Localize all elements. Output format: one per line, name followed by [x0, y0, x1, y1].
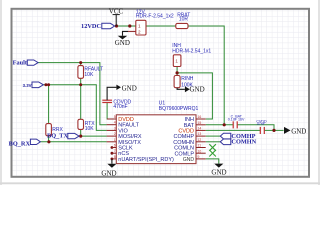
- svg-text:16: 16: [198, 115, 202, 119]
- svg-text:2: 2: [138, 30, 141, 35]
- svg-text:7: 7: [114, 149, 116, 153]
- svg-text:1: 1: [114, 138, 116, 142]
- svg-text:GND: GND: [122, 84, 137, 92]
- svg-text:HDR-M-2.54_1x1: HDR-M-2.54_1x1: [172, 49, 211, 55]
- svg-text:Fault: Fault: [13, 60, 28, 67]
- svg-text:COMHN: COMHN: [231, 139, 256, 146]
- svg-text:nUART/SPI(SPI_RDY): nUART/SPI(SPI_RDY): [118, 157, 174, 163]
- svg-text:BQ79600PWRQ1: BQ79600PWRQ1: [159, 106, 199, 112]
- svg-text:HDR-F-2.54_1x2: HDR-F-2.54_1x2: [136, 14, 174, 20]
- svg-text:9: 9: [198, 155, 200, 159]
- svg-text:10R: 10R: [179, 16, 189, 22]
- svg-text:10K: 10K: [85, 126, 95, 132]
- svg-text:GND: GND: [291, 128, 306, 136]
- svg-text:3: 3: [114, 126, 116, 130]
- svg-text:14: 14: [198, 127, 202, 131]
- svg-text:15: 15: [198, 121, 202, 125]
- svg-text:2: 2: [114, 132, 116, 136]
- svg-text:BQ_TX: BQ_TX: [47, 133, 68, 140]
- svg-text:GND: GND: [211, 168, 226, 176]
- svg-text:470nF: 470nF: [113, 104, 127, 110]
- svg-text:5: 5: [114, 115, 116, 119]
- svg-text:3.3V: 3.3V: [23, 83, 32, 88]
- svg-text:BQ_RX: BQ_RX: [9, 141, 31, 148]
- svg-text:12VDC: 12VDC: [81, 23, 101, 30]
- svg-text:13: 13: [198, 132, 202, 136]
- svg-text:GND: GND: [115, 39, 130, 47]
- svg-text:GND: GND: [101, 170, 116, 178]
- svg-text:12: 12: [198, 138, 202, 142]
- svg-text:10K: 10K: [84, 72, 94, 78]
- svg-text:47nF: 47nF: [257, 122, 266, 126]
- svg-text:GND: GND: [190, 86, 205, 94]
- svg-text:6: 6: [114, 144, 116, 148]
- svg-text:RINH: RINH: [181, 76, 194, 82]
- svg-text:11: 11: [198, 144, 202, 148]
- svg-text:1: 1: [138, 24, 141, 29]
- svg-text:4: 4: [114, 121, 116, 125]
- svg-text:0.1uF 16V: 0.1uF 16V: [228, 117, 245, 121]
- svg-text:8: 8: [114, 155, 116, 159]
- svg-text:GND: GND: [183, 157, 195, 163]
- svg-text:10: 10: [198, 149, 202, 153]
